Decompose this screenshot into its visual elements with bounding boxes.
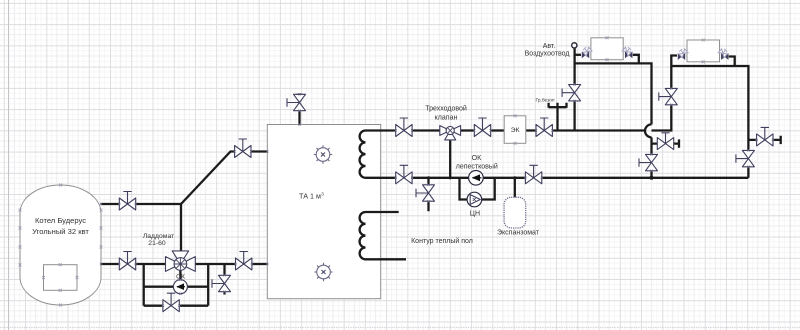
wire riser1 upper to air vent	[573, 48, 575, 84]
wire radiator2 return elbow	[729, 57, 735, 67]
valve return after expansion	[524, 165, 543, 184]
wire branch1	[652, 139, 680, 147]
svg-text:лепестковый: лепестковый	[456, 163, 498, 171]
wire riser1 lower	[573, 101, 575, 131]
valve branch2	[756, 127, 775, 146]
page edge left	[8, 0, 10, 330]
wire valve to hop	[552, 129, 645, 131]
valve boiler top	[118, 192, 137, 211]
wire tank vent stub	[298, 111, 300, 125]
radiator 2 valve left	[678, 48, 688, 60]
svg-text:Контур теплый пол: Контур теплый пол	[411, 237, 473, 245]
tank port circle upper	[314, 145, 332, 163]
valve riser1 (vertical)	[562, 83, 581, 102]
valve branch1	[657, 138, 673, 150]
radiator 2 valve right	[718, 48, 728, 60]
laddomat pump	[173, 280, 187, 294]
radiator 1 valve right	[622, 46, 632, 58]
valve return2 (vertical)	[736, 149, 755, 168]
wire laddomat to valve	[195, 263, 235, 265]
wire boiler bottom to valve	[101, 263, 119, 265]
wire coil valve to 3way	[412, 129, 440, 131]
wire check valve to pipe	[483, 177, 525, 179]
radiator circuit 1 pipes	[575, 48, 679, 177]
radiator 1 valve left	[582, 46, 592, 58]
svg-text:Ладдомат: Ладдомат	[143, 233, 174, 240]
expansion tank	[504, 197, 526, 228]
valve coil supply	[395, 118, 414, 137]
svg-text:клапан: клапан	[435, 115, 458, 122]
tank port circle lower	[314, 263, 332, 281]
connection marks	[100, 123, 301, 294]
svg-text:ЦН: ЦН	[470, 211, 480, 218]
check valve OK petal	[469, 171, 484, 186]
laddomat 3-way thermic valve	[166, 251, 196, 272]
svg-text:Гр.безоп: Гр.безоп	[536, 98, 555, 104]
wire pump line left	[144, 286, 174, 288]
return line pipes	[412, 178, 748, 212]
svg-text:ЭК: ЭК	[511, 127, 520, 134]
wire drain tee near laddomat	[223, 264, 225, 295]
coil lower heat exchanger	[360, 212, 406, 259]
wire valve to tank	[251, 150, 267, 152]
page edge bottom	[0, 327, 800, 329]
wire boiler top to valve	[101, 203, 119, 205]
wire valve to EK box	[491, 129, 505, 131]
wire 3way down to return	[449, 140, 451, 178]
wire riser2 upper	[671, 56, 677, 89]
safety group	[549, 103, 567, 131]
svg-text:Котел Будерус: Котел Будерус	[35, 216, 86, 225]
valve laddomat bypass bottom	[162, 293, 181, 312]
wire radiator1 bottom line	[575, 63, 652, 124]
supply line pipes	[412, 105, 671, 178]
wire radiator1 return elbow	[633, 55, 639, 64]
radiator 1	[591, 38, 623, 60]
wire coil return to valve	[412, 177, 469, 179]
wire return2 valve to return line	[747, 167, 749, 178]
wire valve to laddomat	[136, 263, 166, 265]
svg-text:ТА 1 м: ТА 1 м	[299, 192, 321, 201]
radiator 2	[687, 40, 720, 62]
svg-text:Угольный 32 квт: Угольный 32 квт	[32, 227, 89, 236]
wire return1 to valve	[650, 137, 652, 154]
wire branch2	[748, 136, 780, 144]
valve after EK	[535, 118, 554, 137]
svg-text:Авт.: Авт.	[543, 43, 556, 50]
svg-text:21-60: 21-60	[148, 240, 166, 247]
junction dot 3way drop	[449, 176, 452, 179]
valve return1 (vertical)	[639, 153, 658, 172]
valve riser2 (vertical)	[659, 87, 678, 106]
wire laddomat valve to pump	[179, 271, 181, 280]
air vent circle	[572, 43, 577, 48]
wire bypass bottom left	[144, 305, 163, 307]
wire diagonal to tank supply	[181, 152, 235, 205]
svg-text:Воздухоотвод: Воздухоотвод	[525, 51, 570, 58]
pump CN	[467, 192, 482, 207]
wire valve to tee corner and down to laddomat	[136, 204, 181, 251]
wire radiator2 bottom line	[671, 66, 748, 150]
valve drain near laddomat (vertical)	[212, 274, 231, 293]
valve before tank return	[234, 252, 253, 271]
wire EK box to valve	[526, 129, 536, 131]
wire bypass right vertical	[207, 264, 209, 306]
valve on diagonal supply	[234, 139, 253, 158]
svg-text:Трехходовой: Трехходовой	[425, 105, 467, 113]
boiler body	[20, 185, 101, 305]
valve before EK	[473, 118, 492, 137]
valve boiler bottom	[118, 252, 137, 271]
valve coil return	[395, 165, 414, 184]
svg-text:Экспанзомат: Экспанзомат	[497, 230, 540, 237]
svg-text:ОК: ОК	[472, 155, 482, 162]
heat accumulator tank	[267, 125, 380, 299]
radiator circuit 2 pipes	[671, 56, 780, 178]
junction dot return/radiator1	[650, 176, 654, 180]
junction dot expansion tee	[513, 176, 516, 179]
wire check bypass loop	[460, 178, 495, 200]
wire valve to tank return	[252, 263, 267, 265]
three-way valve (small) on supply	[440, 126, 461, 140]
wire bypass bottom right	[179, 305, 208, 307]
junction dot drain tee	[427, 176, 430, 179]
wire valve to radiator return corner	[542, 177, 749, 179]
valve tank vent (vertical, stem left, capped)	[287, 93, 306, 112]
wire drain on return	[427, 178, 429, 212]
wire expansion tank stem	[514, 178, 516, 198]
wire pump line right	[188, 286, 209, 288]
wire return1 valve to return line	[650, 171, 652, 178]
wire 3way to valve	[461, 129, 475, 131]
wire hop detour	[645, 124, 652, 137]
wire supply tee to radiator valve	[575, 54, 581, 56]
wire after hop corner up to radiator2 riser	[652, 105, 672, 131]
EK box	[504, 116, 526, 144]
boiler firebox rectangle	[44, 265, 78, 291]
boiler handle marks	[19, 184, 103, 307]
valve drain on return line (vertical)	[416, 184, 435, 203]
coil upper heat exchanger	[360, 131, 396, 178]
pipes: boiler top outlet	[101, 111, 300, 306]
wire laddomat bypass left vertical	[143, 264, 145, 306]
